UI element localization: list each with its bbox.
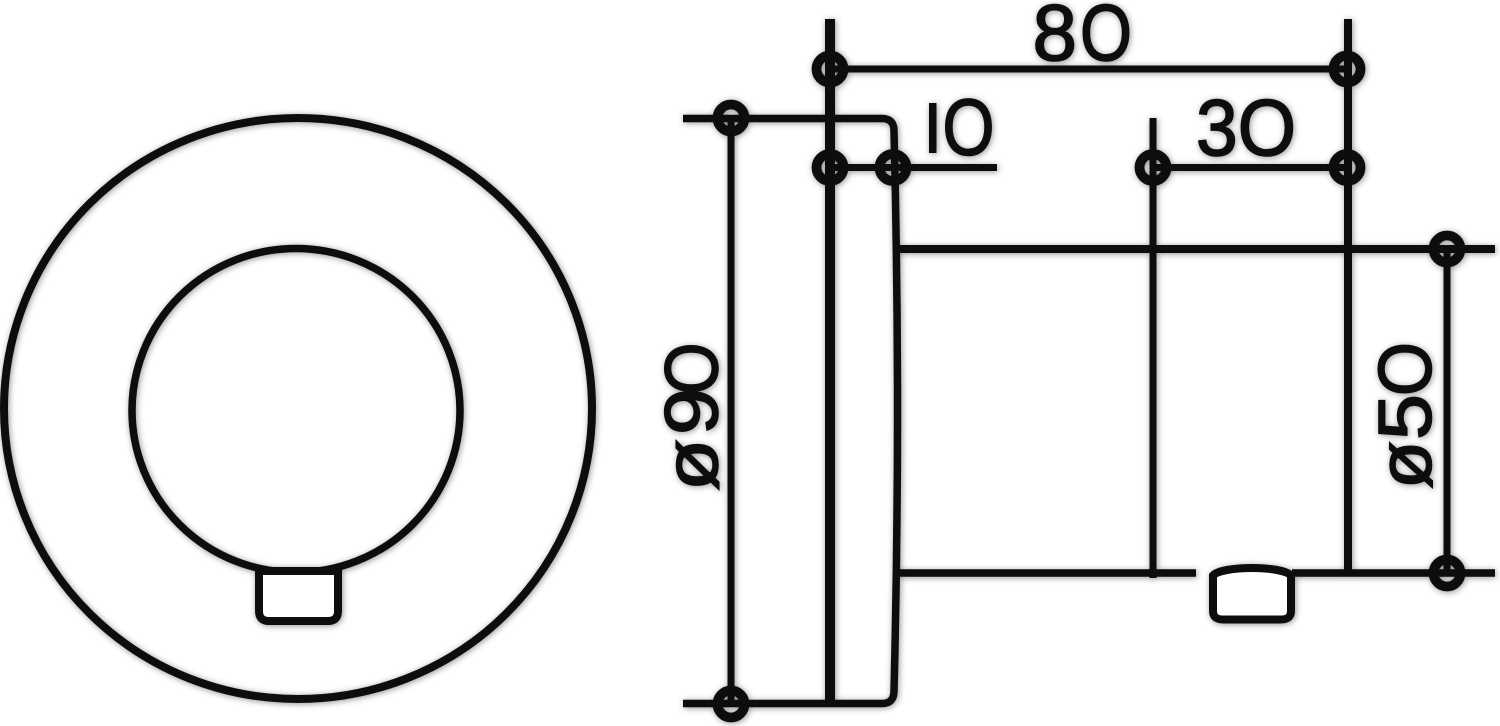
dim 80 right marker	[1334, 56, 1361, 83]
dim 10 line	[830, 164, 997, 171]
dim 10 left marker	[817, 154, 844, 181]
wall extension line (80/10 datum)	[825, 19, 835, 707]
front view tab	[259, 571, 338, 621]
svg-text:ø: ø	[650, 439, 734, 491]
svg-text:O: O	[650, 343, 734, 395]
svg-text:O: O	[943, 83, 995, 172]
dim o50 bottom marker	[1434, 560, 1461, 587]
dim 80 left marker	[817, 56, 844, 83]
label diameter 50	[1363, 342, 1447, 489]
cylinder top line	[893, 245, 1495, 253]
30 dim left extension line	[1150, 118, 1157, 578]
front view outer circle	[4, 118, 592, 699]
dim o50 line	[1444, 249, 1451, 573]
dim 30 line	[1153, 164, 1347, 171]
label diameter 90	[650, 343, 734, 492]
dim o50 top marker	[1434, 236, 1461, 263]
flange outline	[683, 119, 898, 704]
front view inner circle	[132, 249, 460, 573]
dim 10 right marker	[880, 154, 907, 181]
svg-text:8: 8	[1033, 0, 1078, 77]
cylinder bottom line left segment	[893, 569, 1196, 577]
dim o90 line	[728, 118, 735, 704]
dim o90 top marker	[718, 105, 745, 132]
side view tab	[1213, 568, 1291, 620]
dim o90 bottom marker	[718, 691, 745, 718]
cylinder right edge / extension line	[1344, 19, 1352, 572]
dim 30 left marker	[1140, 154, 1167, 181]
svg-text:O: O	[1363, 342, 1447, 396]
label 10	[929, 103, 937, 153]
dim 30 right marker	[1334, 154, 1361, 181]
cylinder bottom line right segment	[1292, 569, 1495, 577]
svg-text:ø: ø	[1363, 441, 1447, 489]
svg-text:3O: 3O	[1196, 83, 1296, 172]
svg-text:5: 5	[1363, 394, 1447, 440]
svg-text:O: O	[1080, 0, 1132, 77]
dim 80 line	[830, 66, 1347, 73]
